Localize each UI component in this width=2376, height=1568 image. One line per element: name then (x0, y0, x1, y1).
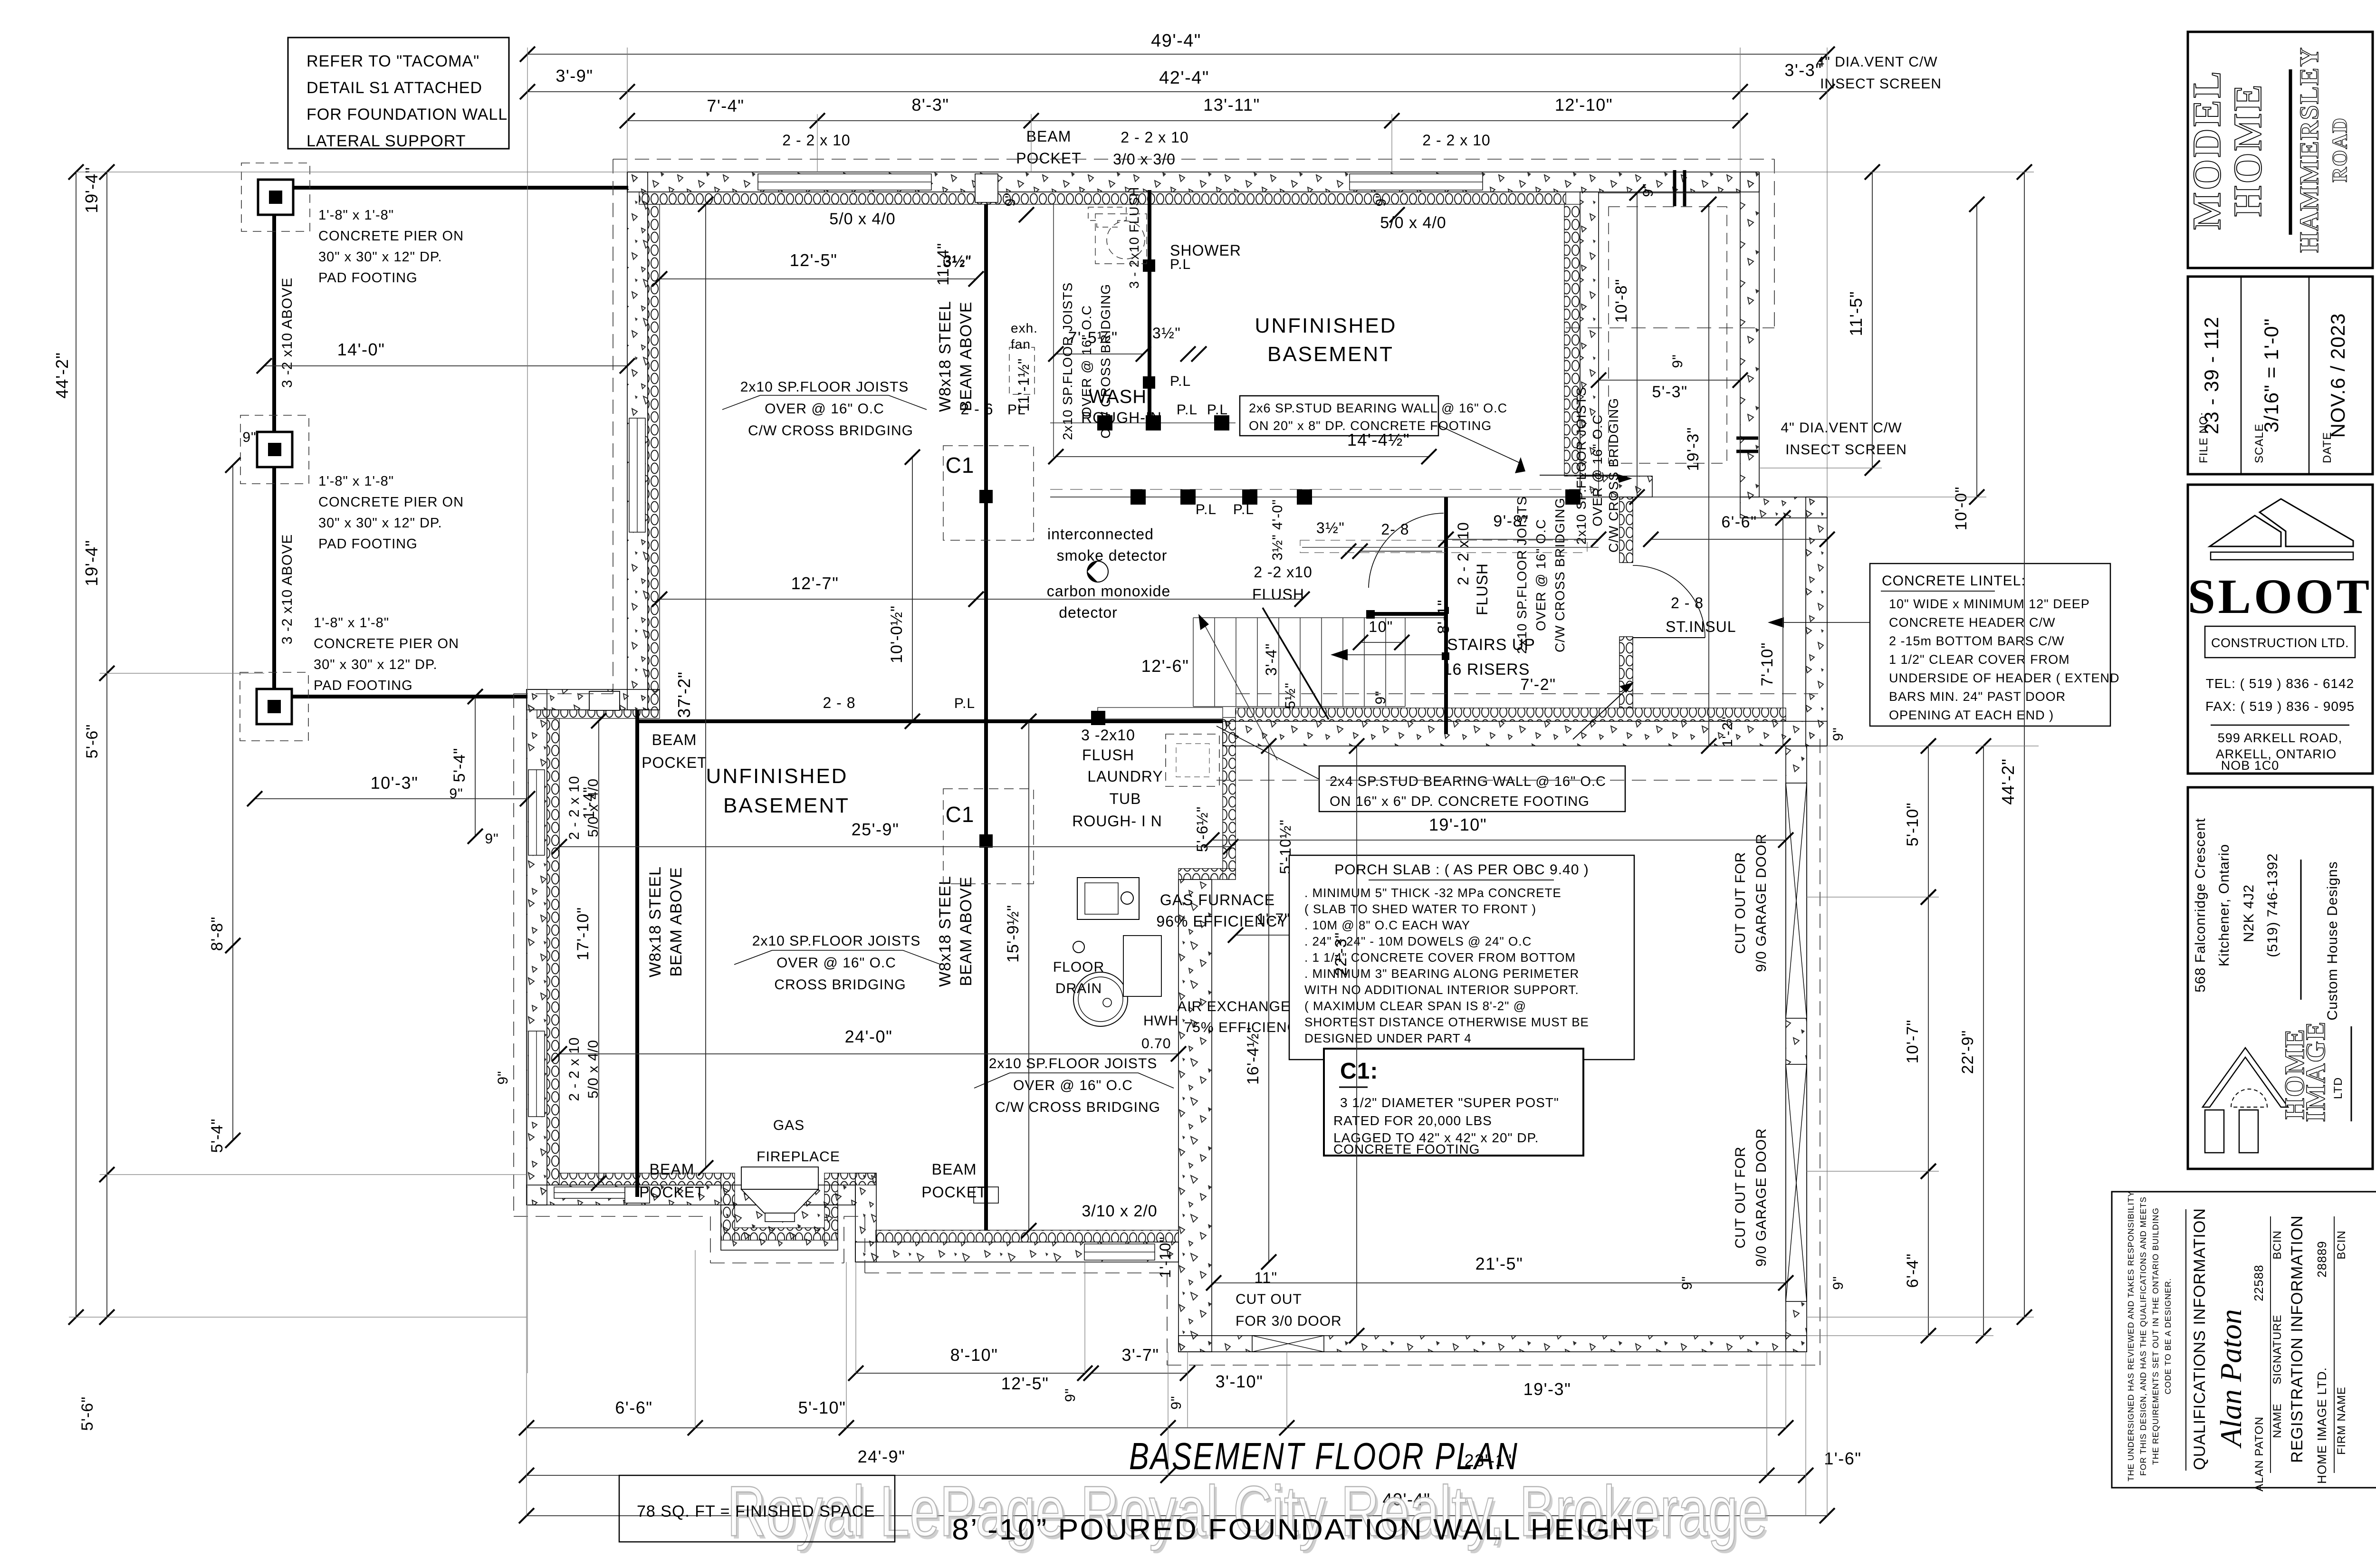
wall: upper-left foundation wall (627, 172, 648, 710)
svg-text:CONCRETE FOOTING: CONCRETE FOOTING (1333, 1142, 1480, 1157)
svg-text:14'-0": 14'-0" (337, 340, 385, 359)
svg-text:OVER @ 16" O.C: OVER @ 16" O.C (765, 401, 884, 417)
arrow: lintel leader (1777, 622, 1870, 623)
dim row2: 3'-9 / 42'-4 / 3'-3 (527, 91, 1740, 92)
svg-text:POCKET: POCKET (639, 1184, 705, 1201)
title block: HOME IMAGE (2188, 787, 2373, 1169)
door cutout: 9/0 garage door (lower) (1786, 1064, 1807, 1301)
svg-text:FAX: ( 519 ) 836 - 9095: FAX: ( 519 ) 836 - 9095 (2205, 699, 2355, 714)
svg-text:HOME IMAGE LTD.: HOME IMAGE LTD. (2315, 1367, 2329, 1484)
wall: laundry nook jog wall (1223, 717, 1236, 880)
wall: garage left wall (1178, 880, 1212, 1352)
window: in bottom-left wall (554, 1187, 649, 1198)
extension lines right (1759, 172, 2034, 172)
wall: porch bottom connector (1740, 497, 1827, 518)
svg-text:3 - 2x10 FLUSH: 3 - 2x10 FLUSH (1127, 187, 1141, 289)
fireplace: foundation bump-out (721, 1205, 838, 1250)
svg-text:P.L: P.L (1233, 502, 1254, 517)
wall: landing header dashed (1302, 547, 1599, 548)
dim: 16'-4half rotated (1268, 746, 1269, 1262)
wall: WASH south wall with posts (1050, 422, 1236, 423)
post: C1 upper (943, 446, 1034, 540)
svg-text:3'-7": 3'-7" (1121, 1345, 1159, 1365)
svg-text:44'-2": 44'-2" (1998, 758, 2018, 805)
svg-text:FLUSH: FLUSH (1474, 563, 1491, 615)
dim: 10'-7 rotated (1928, 897, 1929, 1171)
svg-text:24'-0": 24'-0" (845, 1027, 893, 1046)
svg-text:10'-8": 10'-8" (1612, 279, 1630, 323)
dim: 10'-0half rotated (912, 457, 913, 721)
svg-text:9": 9" (1830, 1276, 1846, 1290)
svg-text:2x4 SP.STUD BEARING WALL @ 16": 2x4 SP.STUD BEARING WALL @ 16" O.C (1330, 774, 1606, 789)
dim: 10'-0 rotated (1976, 204, 1977, 497)
svg-text:12'-10": 12'-10" (1555, 95, 1613, 115)
dashed: garage interior top (1217, 780, 1782, 781)
svg-text:9": 9" (1063, 1388, 1078, 1402)
svg-text:W8x18 STEEL: W8x18 STEEL (646, 866, 664, 977)
svg-text:9": 9" (1640, 183, 1656, 197)
svg-text:3 -2x10: 3 -2x10 (1081, 727, 1135, 744)
svg-text:. MINIMUM 5" THICK -32 MPa CON: . MINIMUM 5" THICK -32 MPa CONCRETE (1304, 886, 1562, 900)
svg-text:exh.: exh. (1011, 321, 1038, 335)
beam: 3-2x10 flush vertical wash (1148, 190, 1151, 423)
svg-text:10" WIDE x MINIMUM 12" DEEP: 10" WIDE x MINIMUM 12" DEEP (1889, 597, 2090, 611)
svg-text:6'-6": 6'-6" (1721, 513, 1757, 531)
svg-text:1'-8" x 1'-8": 1'-8" x 1'-8" (318, 474, 394, 489)
svg-text:4" DIA.VENT C/W: 4" DIA.VENT C/W (1816, 54, 1937, 70)
svg-text:FOR FOUNDATION WALL: FOR FOUNDATION WALL (307, 105, 508, 124)
svg-text:ROAD: ROAD (2328, 117, 2351, 182)
svg-text:IMAGE: IMAGE (2300, 1021, 2331, 1122)
svg-text:CONCRETE LINTEL:: CONCRETE LINTEL: (1882, 573, 2026, 589)
svg-text:3 1/2" DIAMETER "SUPER POST": 3 1/2" DIAMETER "SUPER POST" (1340, 1095, 1559, 1110)
dim: left 44'-2 (76, 172, 77, 1317)
svg-text:10": 10" (1369, 618, 1393, 635)
svg-text:C/W CROSS BRIDGING: C/W CROSS BRIDGING (1606, 398, 1621, 553)
dim: 25'-9 (559, 846, 1231, 847)
svg-text:9": 9" (1169, 1396, 1184, 1409)
svg-text:2 - 2 x 10: 2 - 2 x 10 (566, 775, 582, 840)
svg-text:Custom House Designs: Custom House Designs (2325, 861, 2340, 1020)
beam: pier3 to step wall (274, 695, 527, 698)
air exchanger box (1123, 936, 1161, 996)
svg-text:17'-10": 17'-10" (574, 907, 592, 961)
svg-text:BEAM: BEAM (650, 1161, 695, 1178)
svg-text:9/0 GARAGE DOOR: 9/0 GARAGE DOOR (1753, 833, 1769, 972)
door: stairs top door arc (1369, 513, 1444, 588)
svg-text:3'-9": 3'-9" (556, 66, 593, 86)
svg-text:BASEMENT: BASEMENT (1267, 343, 1394, 366)
shower: dashed box + drain (1095, 214, 1147, 264)
svg-text:( SLAB TO SHED WATER TO FRONT: ( SLAB TO SHED WATER TO FRONT ) (1304, 902, 1536, 916)
svg-text:BEAM ABOVE: BEAM ABOVE (957, 301, 975, 411)
svg-text:19'-3": 19'-3" (1523, 1379, 1571, 1399)
dashed: middle bottom footing (864, 1216, 865, 1273)
svg-text:2x10 SP.FLOOR JOISTS: 2x10 SP.FLOOR JOISTS (989, 1056, 1158, 1071)
svg-text:( MAXIMUM CLEAR SPAN IS 8'-2": ( MAXIMUM CLEAR SPAN IS 8'-2" @ (1304, 999, 1526, 1013)
svg-text:POCKET: POCKET (1016, 150, 1082, 167)
svg-text:TEL: ( 519 ) 836 - 6142: TEL: ( 519 ) 836 - 6142 (2206, 676, 2355, 691)
wall: plate wall outline (1098, 708, 1223, 719)
dim: 37'-2 rotated (705, 204, 706, 1168)
svg-text:9": 9" (242, 430, 256, 445)
svg-text:5½": 5½" (1283, 682, 1298, 708)
svg-text:1'-8" x 1'-8": 1'-8" x 1'-8" (318, 208, 394, 223)
svg-text:5'-10": 5'-10" (798, 1398, 846, 1417)
svg-text:37'-2": 37'-2" (674, 671, 694, 718)
dim rowB: 6'-6 / 5'-10 / 12'-5 / 3'-10 / 19'-3 (527, 1427, 1786, 1428)
svg-text:OVER @ 16" O.C: OVER @ 16" O.C (1533, 519, 1548, 631)
svg-text:P.L: P.L (1170, 373, 1191, 389)
svg-text:1'-2": 1'-2" (1720, 717, 1735, 747)
svg-text:9'-8": 9'-8" (1493, 512, 1529, 530)
toilet rough-in top (1088, 207, 1126, 227)
dim rowD: 49'-4 bottom (527, 1515, 1827, 1516)
dim: 8'-8 rotated (232, 465, 233, 946)
svg-text:2 -2 x10: 2 -2 x10 (1254, 564, 1313, 581)
svg-text:28889: 28889 (2315, 1241, 2329, 1277)
svg-text:OVER @ 16" O.C: OVER @ 16" O.C (1079, 305, 1094, 417)
svg-text:19'-4": 19'-4" (82, 540, 101, 586)
wall: step-down wall right of fireplace (855, 1173, 876, 1262)
svg-text:interconnected: interconnected (1047, 526, 1154, 543)
svg-text:2x10 SP.FLOOR JOISTS: 2x10 SP.FLOOR JOISTS (1574, 387, 1589, 545)
svg-text:GAS: GAS (773, 1118, 805, 1133)
svg-text:W8x18 STEEL: W8x18 STEEL (936, 876, 954, 987)
svg-text:HWH: HWH (1143, 1013, 1179, 1029)
smoke detector circle (1087, 561, 1108, 582)
svg-text:P.L: P.L (1196, 502, 1217, 517)
door: 2-8 ST.INSUL door arc (1633, 565, 1705, 638)
dim: 11'-5 rotated (1872, 172, 1873, 468)
HWH tank (1073, 972, 1128, 1026)
dim: 21'-5 (1214, 1282, 1786, 1283)
window: 5/0 x 4/0 in top wall (left) (758, 174, 931, 190)
wall: bottom wall of middle section (855, 1242, 1178, 1262)
svg-text:19'-10": 19'-10" (1429, 815, 1487, 834)
svg-text:5'-10": 5'-10" (1904, 803, 1922, 847)
svg-text:2 - 8: 2 - 8 (823, 694, 855, 711)
svg-text:SHORTEST DISTANCE OTHERWISE MU: SHORTEST DISTANCE OTHERWISE MUST BE (1304, 1015, 1589, 1029)
note box: CONCRETE LINTEL (1870, 564, 2110, 726)
svg-text:9": 9" (1670, 354, 1686, 368)
svg-text:BASEMENT: BASEMENT (723, 794, 850, 817)
svg-text:P.L: P.L (954, 696, 975, 711)
beam pocket: bottom wall at left beam (625, 1187, 650, 1203)
svg-text:TUB: TUB (1110, 790, 1141, 807)
svg-text:1'-8" x 1'-8": 1'-8" x 1'-8" (314, 615, 389, 631)
svg-text:568 Falconridge Crescent: 568 Falconridge Crescent (2193, 818, 2208, 993)
dim: 14'-0 pier (264, 365, 627, 366)
svg-text:10'-0": 10'-0" (1952, 487, 1970, 531)
svg-text:LATERAL SUPPORT: LATERAL SUPPORT (307, 132, 466, 150)
vent: 4in dia vent top wall (1673, 170, 1677, 206)
wall: 2x6 stud bearing wall vertical (right of stairs) (1619, 497, 1633, 563)
svg-text:23 - 39 - 112: 23 - 39 - 112 (2200, 316, 2223, 434)
dim: 7'-5half (1056, 354, 1143, 354)
svg-text:FOR THIS DESIGN, AND HAS THE: FOR THIS DESIGN, AND HAS THE QUALIFICATI… (2138, 1196, 2148, 1476)
partition: wash room left line (1053, 204, 1054, 457)
svg-text:16'-4½": 16'-4½" (1244, 1027, 1262, 1085)
svg-text:3/10 x 2/0: 3/10 x 2/0 (1082, 1202, 1157, 1220)
svg-text:4" DIA.VENT C/W: 4" DIA.VENT C/W (1781, 420, 1902, 436)
extension lines vertical top (527, 48, 528, 1373)
svg-text:BCIN: BCIN (2335, 1230, 2348, 1259)
note box: PORCH SLAB (1289, 855, 1634, 1060)
extension lines bottom (526, 1205, 527, 1516)
home image logo (2203, 1048, 2288, 1107)
svg-text:OVER @ 16" O.C: OVER @ 16" O.C (776, 955, 896, 971)
svg-text:BEAM: BEAM (1026, 128, 1072, 145)
svg-text:OVER @ 16" O.C: OVER @ 16" O.C (1013, 1078, 1133, 1093)
beam: 2-2x10 flush right of stairs (1444, 497, 1448, 734)
title block: qualifications (2112, 1192, 2376, 1488)
svg-text:CUT OUT FOR: CUT OUT FOR (1733, 852, 1748, 954)
svg-text:FIRM NAME: FIRM NAME (2335, 1386, 2348, 1455)
dashed: garage top dashed (1236, 693, 1820, 694)
dim rowA: 8'-10 / 3'-7 (856, 1373, 1085, 1374)
svg-text:P.L: P.L (1177, 402, 1198, 418)
svg-text:10'-0½": 10'-0½" (888, 605, 906, 663)
svg-text:CUT OUT: CUT OUT (1236, 1291, 1302, 1307)
vent: 4in dia vent right area (1736, 437, 1758, 440)
svg-text:CONCRETE HEADER C/W: CONCRETE HEADER C/W (1889, 615, 2056, 630)
svg-text:42'-4": 42'-4" (1159, 68, 1209, 88)
dim: 22'-9 rotated (1983, 746, 1984, 1336)
svg-text:10'-7": 10'-7" (1904, 1020, 1922, 1064)
svg-text:15'-9½": 15'-9½" (1004, 905, 1022, 963)
svg-text:FLUSH: FLUSH (1252, 586, 1304, 603)
window: lower-left wall upper (5/0x4/0) (528, 770, 545, 855)
dim: 10'-3 (255, 798, 527, 799)
note box: 78 SQ FT (619, 1475, 895, 1542)
post: C1 lower (943, 789, 1034, 884)
svg-text:7'-4": 7'-4" (707, 96, 744, 115)
svg-text:3'-4": 3'-4" (1263, 643, 1280, 676)
svg-text:1 1/2" CLEAR COVER FROM: 1 1/2" CLEAR COVER FROM (1889, 652, 2070, 667)
porch: footing dashed (1609, 207, 1727, 463)
floor drain circle (1073, 941, 1084, 953)
svg-text:C/W CROSS BRIDGING: C/W CROSS BRIDGING (995, 1100, 1160, 1115)
svg-text:THE UNDERSIGNED HAS REVIEWED A: THE UNDERSIGNED HAS REVIEWED AND TAKES R… (2126, 1191, 2136, 1482)
svg-text:AIR EXCHANGER: AIR EXCHANGER (1177, 999, 1301, 1014)
svg-text:22'-9": 22'-9" (1959, 1030, 1977, 1074)
svg-text:2 - 2 x 10: 2 - 2 x 10 (782, 132, 850, 149)
svg-text:7'-10": 7'-10" (1758, 642, 1776, 687)
svg-text:CONCRETE PIER ON: CONCRETE PIER ON (314, 636, 459, 651)
svg-text:14'-4½": 14'-4½" (1347, 430, 1410, 449)
svg-text:ON 16" x 6" DP. CONCRETE FOOT: ON 16" x 6" DP. CONCRETE FOOTING (1330, 794, 1590, 809)
svg-text:C/W CROSS BRIDGING: C/W CROSS BRIDGING (1098, 284, 1113, 439)
pier: P3 (257, 689, 292, 724)
svg-text:19'-3": 19'-3" (1684, 427, 1702, 471)
note box: TACOMA (288, 38, 509, 149)
svg-text:96% EFFICIENCY: 96% EFFICIENCY (1156, 913, 1288, 930)
svg-text:9": 9" (495, 1071, 511, 1084)
svg-text:5'-6½": 5'-6½" (1194, 806, 1211, 852)
svg-text:detector: detector (1059, 604, 1118, 621)
svg-text:3 -2 x10 ABOVE: 3 -2 x10 ABOVE (279, 534, 295, 644)
svg-text:12'-6": 12'-6" (1141, 656, 1189, 676)
svg-text:8’ -10” POURED FOUNDATION W: 8’ -10” POURED FOUNDATION WALL HEIGHT (952, 1513, 1655, 1546)
svg-text:FIREPLACE: FIREPLACE (757, 1149, 840, 1165)
svg-text:FOR 3/0 DOOR: FOR 3/0 DOOR (1236, 1313, 1342, 1329)
svg-text:HAMMERSLEY: HAMMERSLEY (2295, 47, 2324, 253)
window: lower-left wall lower (5/0x4/0) (528, 1031, 545, 1117)
wall: top foundation wall insulation band (639, 192, 1566, 204)
svg-text:BEAM: BEAM (932, 1161, 977, 1178)
svg-text:UNDERSIDE OF HEADER ( EXTEND: UNDERSIDE OF HEADER ( EXTEND (1889, 671, 2120, 685)
door cutout: 3/0 door in garage bottom wall (1252, 1336, 1324, 1352)
svg-text:3 -2 x10 ABOVE: 3 -2 x10 ABOVE (279, 277, 295, 388)
svg-text:30" x 30" x 12" DP.: 30" x 30" x 12" DP. (318, 516, 442, 531)
svg-text:C/W CROSS BRIDGING: C/W CROSS BRIDGING (748, 423, 913, 439)
svg-text:9": 9" (1373, 192, 1389, 206)
label: 2x10 joists upper-left (722, 395, 760, 410)
stairs: treads (1193, 618, 1194, 707)
svg-text:2 - 2 x 10: 2 - 2 x 10 (1121, 129, 1188, 146)
svg-text:12'-5": 12'-5" (790, 250, 838, 270)
svg-text:6'-6": 6'-6" (615, 1398, 652, 1417)
svg-text:ALAN PATON: ALAN PATON (2253, 1416, 2266, 1492)
beam pocket: top wall at center beam (975, 174, 998, 202)
dashed: garage bottom footing (1167, 1365, 1820, 1366)
wall: porch right wall (1740, 172, 1759, 497)
dim: 5'-4 rotated lower (232, 946, 233, 1140)
wall: top foundation wall concrete band (627, 172, 1759, 192)
svg-text:22588: 22588 (2251, 1264, 2266, 1301)
svg-text:WITH NO ADDITIONAL INTERIOR SU: WITH NO ADDITIONAL INTERIOR SUPPORT. (1304, 983, 1579, 997)
laundry tub dashed box (1166, 734, 1219, 786)
dashed: left lower footing (513, 694, 514, 1216)
dim: 5'-4 rotated (475, 697, 476, 836)
svg-text:13'-11": 13'-11" (1203, 95, 1260, 115)
svg-text:THE REQUIREMENTS SET OUT IN TH: THE REQUIREMENTS SET OUT IN THE ONTARIO … (2151, 1207, 2160, 1465)
svg-text:OPENING AT EACH END ): OPENING AT EACH END ) (1889, 708, 2054, 722)
svg-text:CUT OUT FOR: CUT OUT FOR (1733, 1147, 1748, 1249)
svg-text:2 - 2 x 10: 2 - 2 x 10 (566, 1037, 582, 1101)
window: 3/10 x 2/0 in middle bottom wall (1084, 1244, 1155, 1260)
svg-text:BASEMENT FLOOR PLAN: BASEMENT FLOOR PLAN (1129, 1435, 1519, 1477)
wall: central bearing wall with P.L posts (1050, 497, 1599, 497)
svg-text:9/0 GARAGE DOOR: 9/0 GARAGE DOOR (1753, 1128, 1769, 1267)
svg-text:INSECT SCREEN: INSECT SCREEN (1785, 442, 1907, 458)
svg-text:LTD: LTD (2332, 1077, 2345, 1100)
svg-text:2x10 SP.FLOOR JOISTS: 2x10 SP.FLOOR JOISTS (1060, 282, 1075, 440)
svg-text:RATED FOR 20,000 LBS: RATED FOR 20,000 LBS (1333, 1113, 1492, 1128)
wall: step wall (left jog) (527, 689, 660, 710)
svg-text:Alan Paton: Alan Paton (2214, 1309, 2248, 1449)
svg-text:POCKET: POCKET (921, 1184, 987, 1201)
svg-text:3'-10": 3'-10" (1216, 1372, 1264, 1391)
beam pocket: in step wall (589, 691, 620, 710)
svg-text:30" x 30" x 12" DP.: 30" x 30" x 12" DP. (318, 249, 442, 265)
dashed: left upper footing (613, 159, 613, 694)
svg-text:2x10 SP.FLOOR JOISTS: 2x10 SP.FLOOR JOISTS (752, 933, 921, 949)
svg-text:BEAM ABOVE: BEAM ABOVE (957, 876, 975, 986)
svg-text:BEAM: BEAM (652, 731, 697, 748)
svg-text:FLUSH: FLUSH (1082, 746, 1134, 764)
dim: 6'-4 rotated (1928, 1171, 1929, 1336)
svg-text:SIGNATURE: SIGNATURE (2271, 1314, 2284, 1384)
furnace: gas furnace box (1077, 878, 1139, 919)
beam: pier column line (272, 197, 276, 697)
svg-text:HOME: HOME (2226, 83, 2270, 217)
svg-text:BEAM ABOVE: BEAM ABOVE (667, 867, 685, 976)
svg-text:0.70: 0.70 (1141, 1036, 1171, 1052)
wall: house right wall beside porch (concrete) (1580, 192, 1599, 476)
svg-text:CONSTRUCTION LTD.: CONSTRUCTION LTD. (2211, 636, 2349, 650)
wall: garage right wall (1786, 746, 1807, 1352)
svg-text:1'-10": 1'-10" (1157, 1236, 1174, 1278)
svg-text:BARS MIN. 24" PAST DOOR: BARS MIN. 24" PAST DOOR (1889, 689, 2066, 704)
svg-text:30" x 30" x 12" DP.: 30" x 30" x 12" DP. (314, 657, 438, 672)
svg-text:24'-9": 24'-9" (858, 1447, 906, 1466)
svg-text:7'-2": 7'-2" (1520, 676, 1556, 694)
extension lines left (76, 172, 627, 172)
svg-text:10'-3": 10'-3" (371, 773, 419, 793)
svg-text:2 - 2 x10: 2 - 2 x10 (1455, 522, 1472, 585)
dim: 44'-2 right rotated (2024, 172, 2025, 1317)
beam: W8x18 left beam (635, 710, 639, 1197)
svg-text:MODEL: MODEL (2185, 69, 2229, 229)
svg-text:UNFINISHED: UNFINISHED (1255, 314, 1397, 337)
svg-text:CODE TO BE A DESIGNER.: CODE TO BE A DESIGNER. (2163, 1278, 2173, 1394)
svg-text:6'-4": 6'-4" (1904, 1253, 1922, 1288)
dim: 1'-7 (1236, 935, 1302, 936)
dim: 12'-6 line (976, 599, 1302, 600)
svg-text:2 - 2 x 10: 2 - 2 x 10 (1422, 132, 1490, 149)
svg-text:3/16" = 1'-0": 3/16" = 1'-0" (2260, 318, 2282, 432)
wall: bottom wall of left section (527, 1185, 855, 1205)
title block: file/scale/date (2188, 277, 2373, 474)
svg-text:2 -15m BOTTOM BARS C/W: 2 -15m BOTTOM BARS C/W (1889, 634, 2065, 648)
svg-text:9": 9" (1373, 690, 1389, 704)
dim: 5'-3 porch (1599, 380, 1740, 381)
svg-text:78 SQ. FT = FINISHED SPACE: 78 SQ. FT = FINISHED SPACE (637, 1502, 875, 1520)
dim row3: 7'-4 / 8'-3 / 13'-11 / 12'-10 (627, 120, 1740, 121)
svg-text:W8x18 STEEL: W8x18 STEEL (936, 301, 954, 412)
pier: P1 (258, 180, 293, 215)
window: in upper-left wall (629, 418, 645, 532)
title block: SLOOT CONSTRUCTION (2188, 485, 2373, 774)
svg-text:599 ARKELL ROAD,: 599 ARKELL ROAD, (2218, 731, 2343, 745)
svg-text:25'-9": 25'-9" (852, 820, 900, 839)
dashed: porch header line (1566, 327, 1774, 328)
svg-text:11'-1½": 11'-1½" (1015, 358, 1032, 412)
svg-text:P.L: P.L (1207, 402, 1228, 418)
svg-text:PORCH SLAB : ( AS PER OBC 9.4: PORCH SLAB : ( AS PER OBC 9.40 ) (1334, 862, 1589, 878)
dim: 7'-10 rotated (1782, 518, 1783, 746)
svg-text:8'-8": 8'-8" (208, 917, 226, 951)
svg-text:9": 9" (1830, 727, 1846, 741)
svg-text:3½": 3½" (1152, 325, 1181, 342)
svg-text:12'-7": 12'-7" (791, 574, 839, 593)
svg-text:REGISTRATION INFORMATION: REGISTRATION INFORMATION (2288, 1215, 2306, 1463)
dashed: right side footing (1774, 159, 1775, 333)
svg-text:(519) 746-1392: (519) 746-1392 (2265, 853, 2280, 957)
svg-text:UNFINISHED: UNFINISHED (706, 765, 848, 788)
dim: 9'-8 (1446, 539, 1599, 540)
fireplace: firebox (741, 1167, 818, 1189)
svg-text:1'-6": 1'-6" (1824, 1449, 1861, 1468)
svg-text:C1: C1 (946, 453, 975, 478)
dim: 14'-4half (1056, 456, 1429, 457)
svg-text:REFER TO "TACOMA": REFER TO "TACOMA" (307, 52, 479, 70)
svg-text:DETAIL S1 ATTACHED: DETAIL S1 ATTACHED (307, 79, 482, 97)
svg-text:NOB 1C0: NOB 1C0 (2221, 758, 2280, 773)
dim: 24'-0 (559, 1053, 1178, 1054)
